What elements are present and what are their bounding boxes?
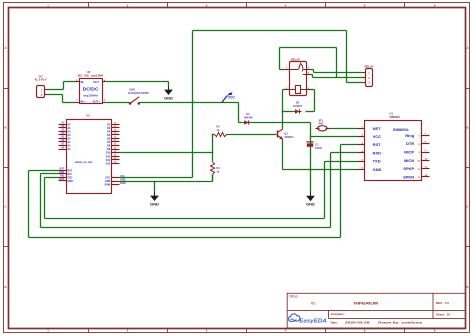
- IC U1 SIM800L module: [358, 111, 430, 180]
- wire arduino GND rail to R4 bottom: [120, 175, 213, 193]
- svg-text:IN +: IN +: [81, 99, 86, 103]
- svg-text:NET: NET: [373, 126, 382, 131]
- svg-text:VCC: VCC: [373, 134, 382, 139]
- svg-text:13: 13: [114, 126, 116, 128]
- svg-text:OUT +: OUT +: [93, 99, 101, 103]
- svg-text:SIM800L: SIM800L: [393, 127, 410, 132]
- title block: [287, 293, 465, 328]
- svg-text:22: 22: [114, 158, 116, 160]
- svg-text:TXO: TXO: [67, 177, 72, 180]
- svg-text:DC_DC_my1584: DC_DC_my1584: [78, 73, 104, 77]
- svg-text:2N3904: 2N3904: [284, 135, 294, 139]
- wire VCC to SIM800L VCC pin: [311, 136, 358, 138]
- svg-text:Company:: Company:: [331, 312, 345, 316]
- svg-text:RAW: RAW: [120, 182, 126, 185]
- svg-text:INPERIUM: INPERIUM: [354, 301, 379, 305]
- svg-text:SPKN: SPKN: [403, 174, 414, 179]
- svg-text:TITLE:: TITLE:: [289, 295, 298, 299]
- wire R3/R4 node: [212, 135, 214, 162]
- svg-text:20: 20: [114, 151, 116, 153]
- svg-text:R4: R4: [216, 166, 220, 170]
- svg-text:Ring: Ring: [405, 133, 414, 138]
- svg-text:Drawn By:: Drawn By:: [378, 321, 400, 325]
- ground GND3 near C1: [306, 193, 315, 207]
- diode D2 1N4007: [293, 100, 303, 113]
- wire relay NC contact to connector pin2: [311, 75, 363, 78]
- svg-text:REV: 1.0: REV: 1.0: [436, 301, 449, 305]
- wire JP1 to SIM800L NET: [330, 128, 358, 130]
- svg-text:B: B: [466, 126, 468, 130]
- svg-text:MICN: MICN: [404, 158, 414, 163]
- wire relay NO contact to connector pin1: [311, 70, 363, 73]
- svg-text:SPKP: SPKP: [403, 166, 414, 171]
- power flag VCC: [222, 92, 235, 102]
- svg-text:D12: D12: [106, 159, 111, 162]
- wire D1 output to C1 and SIM VCC: [239, 123, 312, 141]
- svg-text:GND: GND: [150, 202, 159, 207]
- svg-text:D2: D2: [296, 100, 300, 104]
- svg-text:IN -: IN -: [81, 80, 85, 84]
- EasyEDA logo: [289, 314, 327, 325]
- svg-text:D: D: [4, 285, 6, 289]
- svg-text:1N4448: 1N4448: [243, 115, 253, 119]
- wire Q1 emitter to GND rail and SIM GND: [283, 140, 358, 171]
- svg-text:C: C: [4, 205, 6, 209]
- svg-text:RXD: RXD: [373, 150, 382, 155]
- svg-text:SW1: SW1: [129, 88, 135, 92]
- diode D1 1N4448: [243, 112, 253, 125]
- svg-text:17: 17: [114, 140, 116, 142]
- wire VCC top loop to relay connector pin3: [193, 31, 363, 178]
- svg-text:SIM800L: SIM800L: [390, 115, 401, 119]
- svg-text:1000u: 1000u: [315, 146, 323, 150]
- svg-text:21: 21: [114, 154, 116, 156]
- svg-text:C: C: [466, 205, 468, 209]
- svg-text:U1: U1: [390, 111, 394, 115]
- svg-text:arduino_pro_mini: arduino_pro_mini: [75, 161, 93, 164]
- transistor Q1 2N3904: [278, 129, 294, 140]
- svg-text:RST: RST: [60, 168, 65, 171]
- svg-text:D: D: [466, 285, 468, 289]
- svg-text:GRN: GRN: [67, 180, 73, 183]
- wire C1 node to GND: [310, 170, 312, 193]
- svg-text:RAW: RAW: [105, 184, 111, 187]
- svg-text:12: 12: [114, 122, 116, 124]
- svg-text:my1584n: my1584n: [83, 94, 98, 98]
- jumper JP1 ANT antenna: [316, 118, 330, 131]
- svg-text:KL 5-20 V: KL 5-20 V: [35, 77, 47, 81]
- ground GND2 below arduino: [150, 192, 159, 206]
- svg-text:VCC: VCC: [105, 177, 110, 180]
- svg-text:pobiforex: pobiforex: [402, 321, 423, 325]
- ground GND1: [164, 86, 173, 100]
- wire TXD net arduino to SIM TXD: [45, 162, 358, 219]
- IC U3 arduino_pro_mini: [59, 113, 127, 193]
- svg-text:TXD: TXD: [60, 175, 65, 178]
- svg-text:RXD: RXD: [59, 171, 64, 174]
- svg-text:2020-03-28: 2020-03-28: [345, 321, 370, 325]
- svg-text:D11: D11: [106, 155, 111, 158]
- svg-text:15: 15: [114, 133, 116, 135]
- svg-text:ANT: ANT: [318, 122, 324, 126]
- wire RST net arduino to SIM RST: [29, 145, 358, 238]
- svg-text:MICP: MICP: [404, 150, 414, 155]
- wire relay coil to flyback diode D2: [282, 90, 315, 129]
- svg-text:RELAY: RELAY: [365, 65, 374, 69]
- svg-text:V1: V1: [311, 301, 315, 305]
- svg-text:GND: GND: [164, 96, 173, 101]
- svg-text:C1: C1: [315, 143, 319, 147]
- svg-text:Sheet: 1/1: Sheet: 1/1: [436, 313, 451, 317]
- svg-text:DTR: DTR: [406, 141, 414, 146]
- resistor R4 1k pulldown: [210, 162, 220, 182]
- svg-text:A: A: [4, 46, 6, 50]
- svg-text:RXI: RXI: [67, 173, 71, 176]
- svg-text:RST: RST: [373, 142, 382, 147]
- svg-text:EasyEDA: EasyEDA: [299, 318, 327, 324]
- svg-text:TXD: TXD: [373, 159, 381, 164]
- svg-text:RST: RST: [67, 169, 72, 172]
- svg-text:R3: R3: [216, 124, 220, 128]
- wire VCC rail from DC/DC OUT+ through SW1: [106, 102, 239, 123]
- svg-text:GND: GND: [306, 202, 315, 207]
- wire RXD net arduino to SIM RXD: [41, 153, 358, 228]
- svg-text:U2: U2: [87, 70, 91, 74]
- resistor R3 1k base resistor: [212, 124, 277, 136]
- DC/DC converter U2 my1584: [76, 70, 106, 104]
- svg-text:19: 19: [114, 147, 116, 149]
- svg-text:OUT -: OUT -: [93, 80, 100, 84]
- connector P1 DC input KL 5-20V: [35, 74, 48, 97]
- svg-text:A: A: [466, 46, 468, 50]
- svg-text:23: 23: [114, 161, 116, 163]
- switch SW1 EVQ22705R: [128, 88, 149, 105]
- svg-text:1N4007: 1N4007: [293, 104, 303, 108]
- svg-text:GND: GND: [373, 167, 382, 172]
- svg-text:GND: GND: [105, 180, 111, 183]
- svg-text:Date:: Date:: [331, 321, 338, 325]
- svg-text:16: 16: [114, 137, 116, 139]
- svg-text:U3: U3: [86, 113, 90, 117]
- wire arduino D11 to base node: [120, 152, 213, 154]
- wire DC/DC OUT- to GND: [106, 82, 169, 87]
- svg-text:DTR: DTR: [59, 178, 64, 181]
- svg-text:RELAY: RELAY: [291, 58, 300, 62]
- wire arduino VCC to VCC rail: [120, 177, 193, 179]
- svg-text:B: B: [4, 126, 6, 130]
- svg-text:18: 18: [114, 144, 116, 146]
- svg-text:DC/DC: DC/DC: [83, 86, 99, 91]
- wire relay common contact loop: [280, 48, 337, 78]
- svg-text:D1: D1: [246, 112, 250, 116]
- relay K1 RELAY: [285, 58, 311, 96]
- wire DC connector to DC/DC input: [48, 82, 76, 103]
- svg-text:D10: D10: [106, 152, 111, 155]
- svg-text:VCC: VCC: [228, 96, 236, 100]
- svg-text:D13: D13: [106, 162, 111, 165]
- connector P2 RELAY output: [363, 65, 374, 87]
- svg-text:EVQ22705R: EVQ22705R: [128, 91, 149, 95]
- capacitor C1 1000u: [306, 141, 322, 170]
